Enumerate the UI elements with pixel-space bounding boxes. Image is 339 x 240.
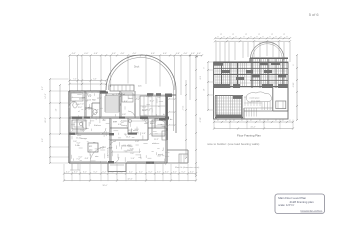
svg-text:Deck: Deck	[134, 67, 140, 69]
svg-text:8'-0": 8'-0"	[102, 120, 106, 122]
svg-text:12'-0": 12'-0"	[142, 110, 147, 112]
svg-text:note to builder: (use load bea: note to builder: (use load bearing walls…	[207, 142, 259, 146]
svg-text:great room: great room	[251, 100, 261, 103]
svg-text:8'-0": 8'-0"	[109, 148, 113, 150]
svg-text:7'-2": 7'-2"	[73, 79, 77, 81]
svg-text:46'-8": 46'-8"	[45, 117, 47, 122]
svg-text:Garage: Garage	[80, 137, 88, 140]
svg-text:9'-6": 9'-6"	[130, 153, 134, 155]
svg-text:5'-0": 5'-0"	[128, 145, 132, 147]
svg-text:11'-6": 11'-6"	[181, 106, 183, 111]
svg-text:14'-2": 14'-2"	[45, 93, 47, 98]
svg-text:4'-6": 4'-6"	[94, 53, 98, 55]
svg-text:9'-6": 9'-6"	[157, 97, 161, 99]
svg-text:6'-2": 6'-2"	[103, 171, 107, 173]
svg-text:wic: wic	[158, 94, 161, 96]
svg-text:2x10: 2x10	[130, 149, 134, 151]
svg-text:6'-2": 6'-2"	[139, 171, 143, 173]
svg-text:8'-0": 8'-0"	[124, 101, 128, 103]
svg-text:4'-8": 4'-8"	[122, 114, 126, 116]
svg-text:6'-2": 6'-2"	[66, 171, 70, 173]
svg-text:24'-0": 24'-0"	[199, 117, 201, 122]
svg-text:4'-6": 4'-6"	[151, 53, 155, 55]
svg-text:6'-2": 6'-2"	[129, 171, 133, 173]
svg-text:11'-2": 11'-2"	[126, 136, 131, 138]
svg-text:stor: stor	[95, 155, 99, 158]
svg-text:Kitchen: Kitchen	[94, 124, 102, 127]
svg-text:6'-2": 6'-2"	[173, 171, 177, 173]
svg-text:6'-2": 6'-2"	[83, 171, 87, 173]
svg-text:2x10: 2x10	[87, 100, 91, 102]
svg-text:2x10: 2x10	[162, 126, 166, 128]
svg-text:58'-0": 58'-0"	[102, 185, 107, 187]
svg-text:42'-6": 42'-6"	[127, 178, 132, 180]
svg-text:4'-6": 4'-6"	[197, 53, 201, 55]
svg-text:11'-2": 11'-2"	[150, 100, 155, 102]
svg-text:11'-2": 11'-2"	[128, 130, 133, 132]
svg-text:5'-0": 5'-0"	[79, 157, 83, 159]
svg-text:6'-2": 6'-2"	[190, 171, 194, 173]
svg-text:9'-6": 9'-6"	[142, 120, 146, 122]
svg-text:8'-6": 8'-6"	[113, 122, 117, 124]
svg-text:412: 412	[89, 146, 92, 148]
svg-text:4'-6": 4'-6"	[176, 53, 180, 55]
svg-text:8'-0": 8'-0"	[80, 129, 84, 131]
svg-text:Dining: Dining	[121, 125, 128, 127]
svg-text:6'-2": 6'-2"	[149, 171, 153, 173]
svg-text:11'-2": 11'-2"	[142, 106, 147, 108]
svg-text:6'-2": 6'-2"	[165, 171, 169, 173]
svg-text:4'-6": 4'-6"	[184, 53, 188, 55]
svg-text:4'-6": 4'-6"	[163, 53, 167, 55]
svg-text:4'-8": 4'-8"	[118, 124, 122, 126]
svg-text:6'-2": 6'-2"	[157, 171, 161, 173]
svg-text:5'-0": 5'-0"	[77, 143, 81, 145]
svg-text:9'-0": 9'-0"	[42, 138, 44, 142]
svg-text:6'-2": 6'-2"	[94, 171, 98, 173]
svg-text:8'-2": 8'-2"	[42, 86, 44, 90]
svg-text:8'-0": 8'-0"	[146, 96, 150, 98]
svg-text:6'-8": 6'-8"	[135, 141, 139, 143]
svg-text:crawl space: crawl space	[250, 97, 260, 100]
svg-text:9'-6": 9'-6"	[142, 133, 146, 135]
svg-text:Main flr (dimension view): Main flr (dimension view)	[175, 166, 199, 169]
svg-text:3'-2": 3'-2"	[119, 94, 123, 96]
svg-text:scale: 1/4"=1': scale: 1/4"=1'	[278, 203, 295, 207]
svg-text:4'-8": 4'-8"	[88, 96, 92, 98]
svg-text:3'-2": 3'-2"	[84, 121, 88, 123]
svg-text:11'-2": 11'-2"	[100, 148, 105, 150]
svg-text:4'-6": 4'-6"	[121, 53, 125, 55]
svg-text:5'-0": 5'-0"	[131, 158, 135, 160]
svg-text:4'-6": 4'-6"	[112, 53, 116, 55]
svg-text:Hall: Hall	[92, 100, 96, 102]
svg-text:11'-2": 11'-2"	[76, 137, 81, 139]
svg-text:7'-4": 7'-4"	[76, 159, 80, 161]
svg-text:7'-4": 7'-4"	[147, 110, 151, 112]
svg-text:9'-6": 9'-6"	[199, 76, 201, 80]
svg-text:7'-4": 7'-4"	[80, 103, 84, 105]
svg-text:12'-0": 12'-0"	[97, 98, 102, 100]
svg-text:6'-8": 6'-8"	[85, 158, 89, 160]
svg-text:5'-0": 5'-0"	[153, 122, 157, 124]
svg-text:6'-2": 6'-2"	[74, 171, 78, 173]
svg-text:2x10: 2x10	[76, 104, 80, 106]
svg-text:5 of 6: 5 of 6	[309, 12, 319, 17]
svg-text:4128 Framing plan: 4128 Framing plan	[290, 200, 314, 204]
svg-text:5'-6": 5'-6"	[93, 79, 97, 81]
svg-text:4'-6": 4'-6"	[191, 53, 195, 55]
svg-text:plan: plan	[89, 150, 93, 152]
svg-text:4'-6": 4'-6"	[84, 53, 88, 55]
svg-text:29'-6": 29'-6"	[292, 83, 294, 88]
svg-text:41'-2": 41'-2"	[250, 126, 255, 128]
svg-text:6'-2": 6'-2"	[182, 171, 186, 173]
svg-text:11'-2": 11'-2"	[154, 139, 159, 141]
svg-text:4'-8": 4'-8"	[157, 156, 161, 158]
svg-text:4'-6": 4'-6"	[72, 53, 76, 55]
svg-text:Floor Framing Plan: Floor Framing Plan	[237, 134, 261, 138]
svg-text:6'-8": 6'-8"	[82, 97, 86, 99]
svg-text:11'-2": 11'-2"	[78, 107, 83, 109]
svg-text:9'-6": 9'-6"	[95, 110, 99, 112]
